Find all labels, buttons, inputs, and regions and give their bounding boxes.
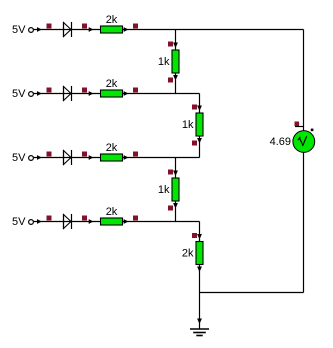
current arrow into diode D2 (37, 91, 42, 96)
pin marker (top pin of ladder resistor R7) (168, 170, 173, 175)
current arrow into resistor R4 (89, 219, 94, 224)
wire: row4 corner down through R8 to ground node (199, 222, 201, 293)
svg-text:5V: 5V (12, 152, 26, 164)
pin marker (right pin of R3) (133, 152, 138, 157)
wire: bottom rail to ground node (200, 292, 304, 294)
diode D2 (64, 86, 72, 101)
current arrow out of resistor R3 (124, 155, 129, 160)
svg-text:2k: 2k (106, 142, 118, 154)
svg-text:1k: 1k (158, 184, 170, 196)
current arrow out of resistor R1 (124, 27, 129, 32)
wire: top rail from row1 corner down to voltmeter (303, 30, 305, 132)
terminal (input 3 connector circle) (29, 156, 34, 161)
svg-text:5V: 5V (12, 24, 26, 36)
pin marker (anode of D4) (47, 216, 52, 221)
svg-text:5V: 5V (12, 216, 26, 228)
svg-text:2k: 2k (106, 78, 118, 90)
svg-text:2k: 2k (182, 248, 194, 260)
ground symbol (190, 329, 209, 336)
pin marker (right pin of R4) (133, 216, 138, 221)
diode D3 (64, 150, 72, 165)
current arrow out of resistor R4 (124, 219, 129, 224)
pin marker (anode of D3) (47, 152, 52, 157)
svg-text:1k: 1k (158, 56, 170, 68)
resistor R5 1k body (vertical) (172, 50, 179, 73)
voltmeter V symbol (298, 136, 307, 145)
current arrow out of resistor R2 (124, 91, 129, 96)
current arrow into R5 (173, 43, 178, 49)
pin marker (top pin of ladder resistor R6) (192, 105, 197, 110)
resistor R3 2k body (101, 154, 123, 161)
current arrow into diode D3 (37, 155, 42, 160)
current arrow out of R8 (197, 267, 202, 273)
current arrow into resistor R1 (89, 27, 94, 32)
svg-text:5V: 5V (12, 88, 26, 100)
wire: voltmeter down to bottom rail (303, 152, 305, 292)
voltmeter polarity dot (311, 129, 314, 132)
terminal (input 1 connector circle) (29, 28, 34, 33)
resistor R1 2k body (101, 26, 123, 33)
current arrow into resistor R2 (89, 91, 94, 96)
pin marker (top pin of ladder resistor R5) (168, 42, 173, 47)
pin marker (cathode of D1) (82, 24, 87, 29)
svg-text:4.69: 4.69 (270, 136, 291, 148)
pin marker (bottom pin of ladder resistor R6) (192, 141, 197, 146)
svg-text:2k: 2k (106, 206, 118, 218)
pin marker (cathode of D4) (82, 216, 87, 221)
resistor R6 1k body (vertical) (196, 113, 203, 136)
pin marker (top pin of ladder resistor R8) (192, 233, 197, 238)
terminal (input 2 connector circle) (29, 92, 34, 97)
pin marker (voltmeter + pin) (295, 122, 300, 127)
pin marker (anode of D2) (47, 88, 52, 93)
resistor R2 2k body (101, 90, 123, 97)
wire row 4 horizontal (34, 221, 200, 223)
wire: row3 down through R7 to row4 (175, 158, 177, 222)
diode D1 (64, 22, 72, 37)
pin marker (anode of D1) (47, 24, 52, 29)
current arrow out of R7 (173, 203, 178, 209)
pin marker (bottom pin of ladder resistor R5) (168, 78, 173, 83)
svg-text:2k: 2k (106, 14, 118, 26)
current arrow into resistor R3 (89, 155, 94, 160)
current arrow into R6 (197, 106, 202, 112)
wire: voltmeter pin tick (295, 126, 304, 128)
terminal (input 4 connector circle) (29, 220, 34, 225)
current arrow into diode D1 (37, 27, 42, 32)
resistor R8 2k body (vertical) (196, 242, 203, 265)
current arrow into ground (197, 319, 202, 325)
current arrow out of R6 (197, 138, 202, 144)
pin marker (cathode of D3) (82, 152, 87, 157)
wire: ground stem (199, 293, 201, 329)
current arrow into R7 (173, 171, 178, 177)
voltmeter M1 body (293, 131, 315, 153)
wire: row2 corner down through R6 to row3 (199, 94, 201, 158)
resistor R4 2k body (101, 218, 123, 225)
wire: node row1 down through R5 to row2 (175, 30, 177, 94)
current arrow into R8 (197, 234, 202, 240)
resistor R7 1k body (vertical) (172, 178, 179, 201)
wire row 1 horizontal (34, 29, 304, 31)
svg-text:1k: 1k (182, 119, 194, 131)
pin marker (right pin of R1) (133, 24, 138, 29)
pin marker (right pin of R2) (133, 88, 138, 93)
diode D4 (64, 214, 72, 229)
current arrow out of R5 (173, 75, 178, 81)
current arrow into diode D4 (37, 219, 42, 224)
pin marker (cathode of D2) (82, 88, 87, 93)
pin marker (bottom pin of ladder resistor R7) (168, 206, 173, 211)
wire row 2 horizontal (34, 93, 200, 95)
wire row 3 horizontal (34, 157, 200, 159)
